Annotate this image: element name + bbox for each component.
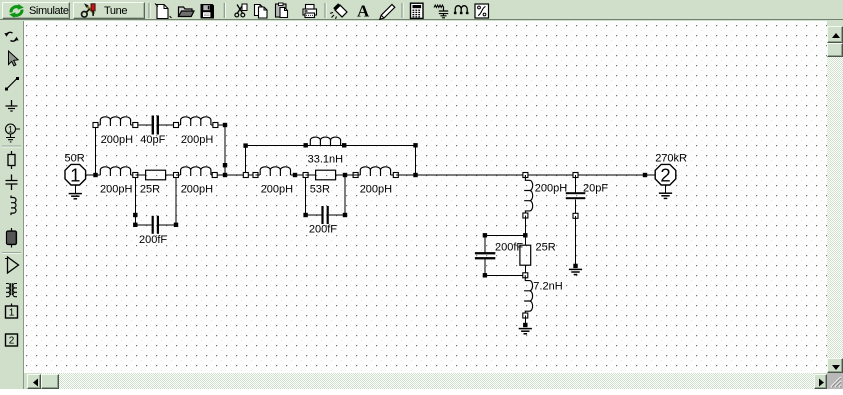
- svg-text:200pH: 200pH: [261, 184, 293, 196]
- svg-text:25R: 25R: [536, 242, 556, 254]
- svg-text:200fF: 200fF: [309, 224, 337, 236]
- svg-text:2: 2: [660, 164, 670, 185]
- svg-text:200pH: 200pH: [360, 184, 392, 196]
- svg-text:20pF: 20pF: [583, 182, 608, 194]
- svg-text:7.2nH: 7.2nH: [533, 281, 562, 293]
- svg-text:A: A: [357, 2, 370, 21]
- svg-text:1: 1: [8, 124, 13, 134]
- svg-text:200pH: 200pH: [535, 182, 567, 194]
- svg-text:1: 1: [70, 164, 80, 185]
- svg-text:40pF: 40pF: [140, 134, 165, 146]
- svg-text:53R: 53R: [310, 184, 330, 196]
- svg-text:270kR: 270kR: [655, 152, 687, 164]
- svg-text:33.1nH: 33.1nH: [308, 154, 344, 166]
- svg-text:25R: 25R: [140, 184, 160, 196]
- svg-text:200fF: 200fF: [495, 241, 523, 253]
- svg-text:1: 1: [9, 308, 15, 319]
- svg-text:200pH: 200pH: [100, 184, 132, 196]
- svg-text:50R: 50R: [65, 152, 85, 164]
- svg-text:200pH: 200pH: [101, 134, 133, 146]
- svg-text:200fF: 200fF: [139, 234, 167, 246]
- svg-text:200pH: 200pH: [181, 134, 213, 146]
- svg-text:2: 2: [9, 336, 15, 347]
- svg-text:200pH: 200pH: [181, 184, 213, 196]
